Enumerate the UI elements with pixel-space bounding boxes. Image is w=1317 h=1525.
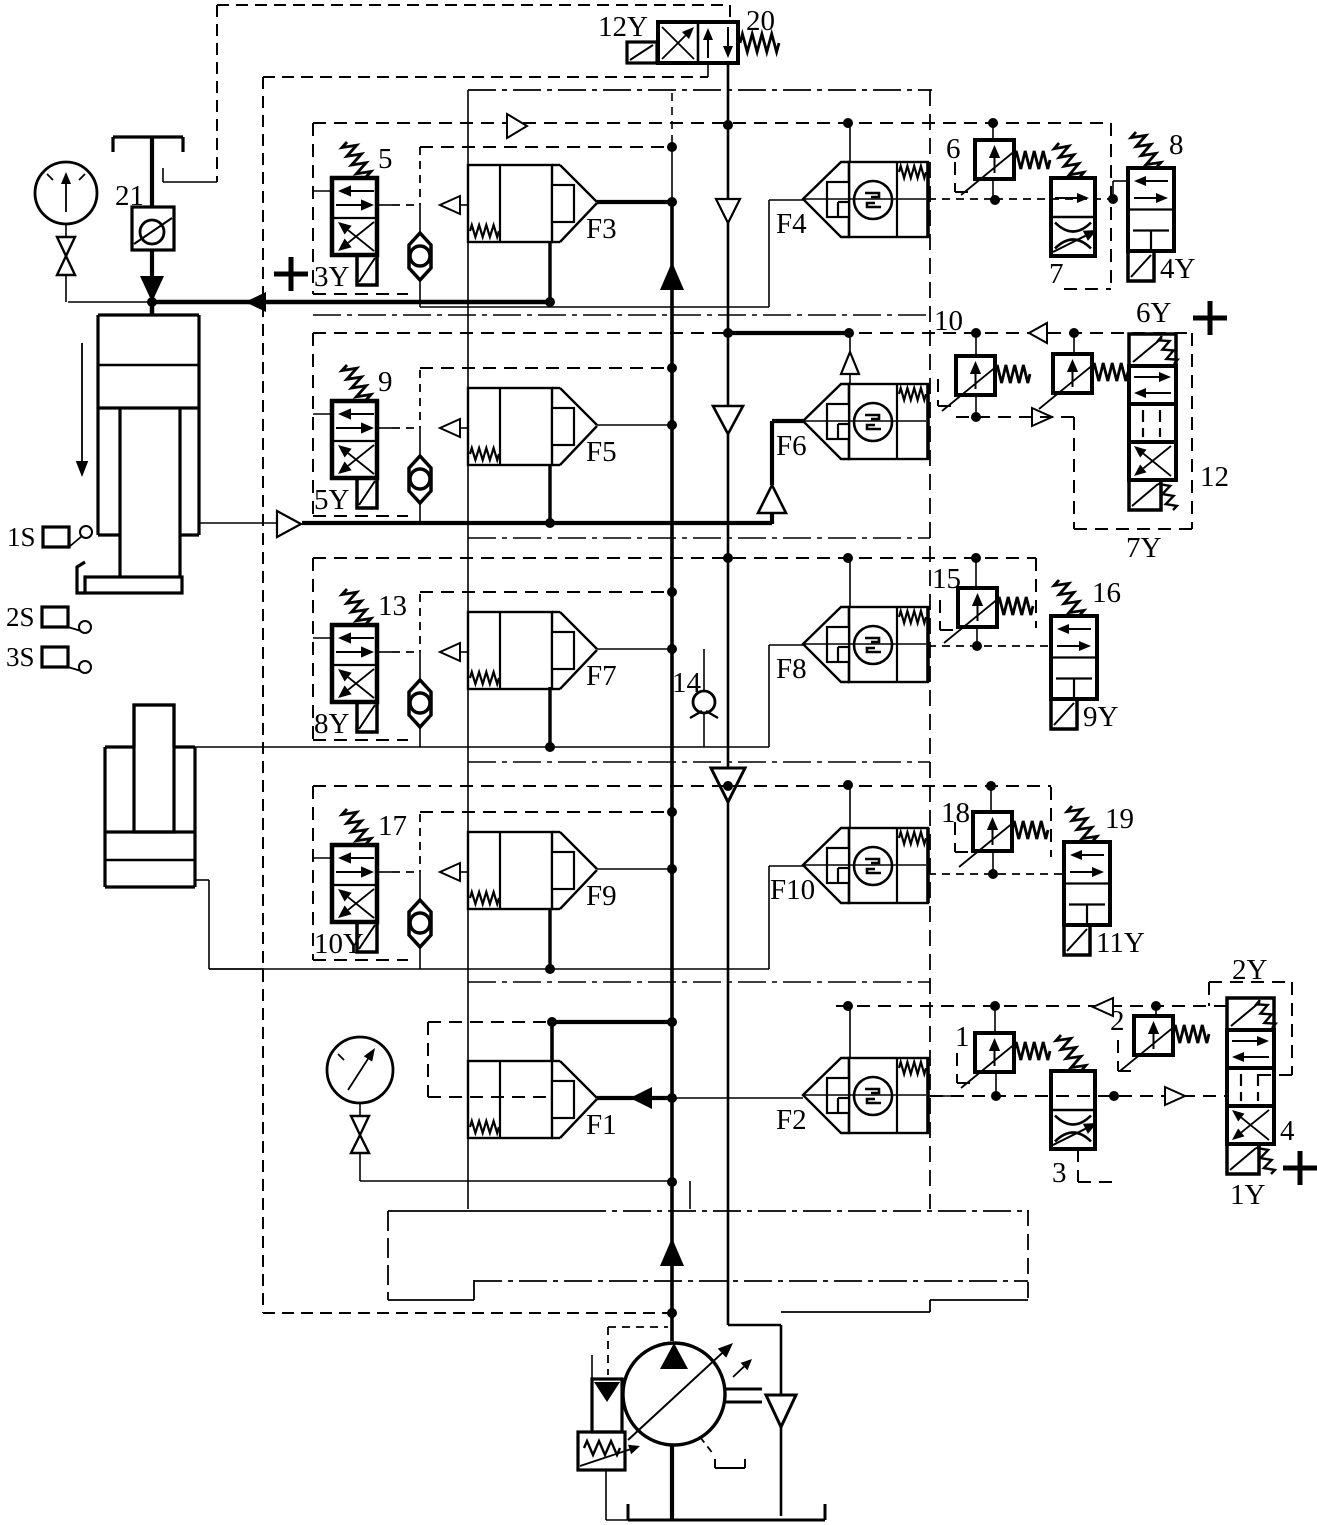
svg-text:5: 5: [378, 143, 393, 175]
svg-text:10Y: 10Y: [314, 928, 364, 960]
svg-text:9: 9: [378, 366, 393, 398]
svg-text:F1: F1: [586, 1109, 617, 1141]
svg-text:8Y: 8Y: [314, 708, 350, 740]
svg-text:9Y: 9Y: [1083, 701, 1119, 733]
svg-text:10: 10: [934, 305, 963, 337]
svg-text:18: 18: [941, 797, 970, 829]
svg-text:2: 2: [1110, 1005, 1125, 1037]
svg-text:19: 19: [1105, 803, 1134, 835]
svg-text:20: 20: [746, 5, 775, 37]
svg-text:4Y: 4Y: [1160, 253, 1196, 285]
svg-text:F6: F6: [776, 430, 807, 462]
svg-text:21: 21: [115, 180, 144, 212]
svg-text:5Y: 5Y: [314, 484, 350, 516]
svg-text:7: 7: [1049, 258, 1064, 290]
svg-text:13: 13: [378, 590, 407, 622]
svg-text:3S: 3S: [6, 642, 35, 672]
svg-text:F8: F8: [776, 653, 807, 685]
svg-text:F10: F10: [770, 874, 815, 906]
svg-text:2S: 2S: [6, 602, 35, 632]
svg-text:F4: F4: [776, 208, 807, 240]
svg-text:17: 17: [378, 810, 407, 842]
svg-text:6Y: 6Y: [1136, 297, 1172, 329]
svg-text:F7: F7: [586, 660, 617, 692]
svg-text:12Y: 12Y: [598, 11, 648, 43]
svg-text:1: 1: [955, 1021, 970, 1053]
svg-text:4: 4: [1280, 1115, 1295, 1147]
svg-text:12: 12: [1200, 461, 1229, 493]
svg-text:14: 14: [672, 667, 702, 699]
svg-text:11Y: 11Y: [1096, 927, 1145, 959]
svg-text:7Y: 7Y: [1126, 532, 1162, 564]
svg-text:F3: F3: [586, 213, 617, 245]
svg-text:F2: F2: [776, 1104, 807, 1136]
svg-text:F5: F5: [586, 436, 617, 468]
svg-text:1Y: 1Y: [1230, 1179, 1266, 1211]
svg-text:3Y: 3Y: [314, 261, 350, 293]
svg-text:15: 15: [932, 563, 961, 595]
svg-text:6: 6: [946, 133, 961, 165]
svg-text:1S: 1S: [7, 522, 36, 552]
svg-text:16: 16: [1092, 577, 1121, 609]
svg-text:3: 3: [1052, 1157, 1067, 1189]
svg-text:F9: F9: [586, 880, 617, 912]
svg-text:8: 8: [1169, 129, 1184, 161]
